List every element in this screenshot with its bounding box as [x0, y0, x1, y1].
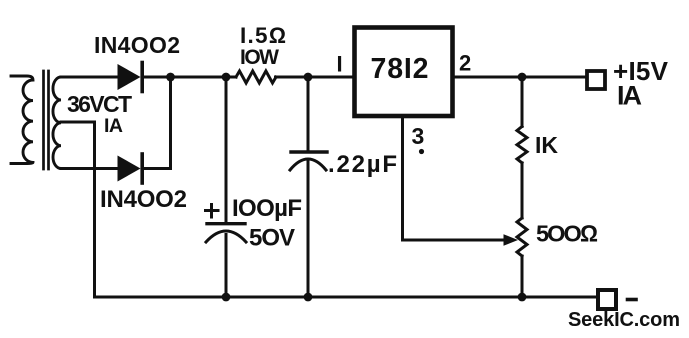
- junction dot at .22uF: [304, 73, 313, 82]
- svg-text:IA: IA: [617, 81, 642, 111]
- svg-text:5OOΩ: 5OOΩ: [536, 221, 598, 247]
- svg-text:36VCT: 36VCT: [67, 91, 132, 117]
- wire: center tap drop to bottom rail: [93, 122, 96, 297]
- diode D2 (IN4002): [118, 156, 141, 182]
- terminal +15V square: [587, 71, 605, 89]
- capacitor C1 100uF 50V top plate: [207, 222, 245, 225]
- wire: D2 cathode to top rail junction: [142, 77, 171, 169]
- svg-text:SeekIC.com: SeekIC.com: [568, 309, 680, 331]
- svg-text:IOW: IOW: [240, 46, 279, 69]
- svg-text:78I2: 78I2: [371, 53, 429, 85]
- dot after pin 3 label: [419, 149, 424, 154]
- svg-text:IA: IA: [104, 115, 123, 137]
- wire: resistor to regulator input: [276, 76, 353, 79]
- svg-text:I.5Ω: I.5Ω: [240, 23, 286, 48]
- junction dot bottom rail at pot: [518, 293, 527, 302]
- wire: drop to 100uF capacitor: [225, 77, 228, 222]
- plus sign of C1: [206, 209, 219, 212]
- wire: secondary top lead to diode D1: [61, 76, 118, 79]
- svg-text:5OV: 5OV: [249, 225, 295, 252]
- svg-text:IN4OO2: IN4OO2: [100, 186, 187, 213]
- wire: secondary bottom lead to diode D2: [61, 167, 118, 170]
- wire: potentiometer to bottom rail: [521, 256, 524, 297]
- capacitor C2 curved bottom plate: [290, 159, 326, 170]
- regulator U1 7812 box: [355, 28, 453, 117]
- junction dot at 100uF: [222, 73, 231, 82]
- terminal minus square: [598, 290, 616, 309]
- svg-text:2: 2: [459, 51, 471, 76]
- arrowhead of wiper: [504, 234, 519, 246]
- svg-text:3: 3: [412, 123, 425, 149]
- wire: C1 to bottom rail: [225, 235, 228, 298]
- resistor R2 1K zigzag: [517, 127, 527, 163]
- svg-text:IOOµF: IOOµF: [232, 195, 302, 222]
- transformer T1 secondary winding 36VCT: [53, 77, 61, 169]
- transformer core: [42, 71, 45, 169]
- transformer T1 primary winding: [11, 76, 33, 164]
- svg-text:I: I: [337, 52, 343, 77]
- wire: output junction down to 1K resistor: [521, 77, 524, 127]
- wire: 7812 pin 3 to potentiometer wiper: [403, 118, 506, 240]
- wire: D1 cathode along top rail to 7812 pin 1: [142, 76, 236, 79]
- junction dot top rail left: [166, 73, 175, 82]
- wire: 1K to potentiometer: [521, 163, 524, 218]
- wire: 7812 pin 2 output to +15V terminal: [455, 76, 585, 79]
- svg-text:IN4OO2: IN4OO2: [94, 32, 180, 58]
- capacitor C1 curved bottom plate: [206, 231, 246, 242]
- bottom rail wire: [95, 296, 597, 299]
- diode D1 (IN4002): [118, 64, 141, 90]
- svg-text:IK: IK: [535, 132, 558, 158]
- capacitor C2 .22uF top plate: [291, 150, 327, 153]
- potentiometer R3 500 ohm zigzag: [517, 218, 527, 256]
- junction dot bottom rail at C2: [304, 293, 313, 302]
- wire: center tap lead: [61, 121, 95, 124]
- resistor R1 1.5 ohm 10W zigzag: [236, 71, 276, 83]
- wire: C2 to bottom rail: [307, 162, 310, 297]
- junction dot at output: [518, 73, 527, 82]
- junction dot bottom rail at C1: [222, 293, 231, 302]
- wire: drop to .22uF capacitor: [307, 77, 310, 151]
- minus sign: [628, 298, 637, 302]
- svg-text:.22µF: .22µF: [328, 151, 397, 178]
